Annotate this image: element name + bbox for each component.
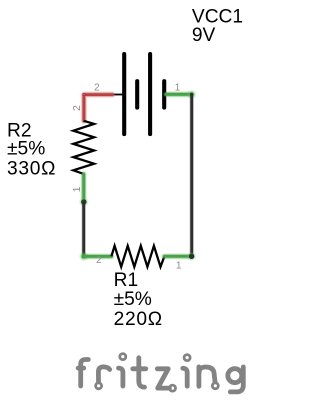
resistor R2 zigzag	[73, 121, 94, 174]
node junction dot left	[79, 197, 88, 206]
wire green R2-pin1 segment	[81, 174, 87, 201]
wire black right vertical	[189, 94, 194, 256]
logo letter n	[196, 367, 201, 386]
wire green R1-pin1 segment	[164, 253, 191, 259]
resistor R1 zigzag	[111, 246, 164, 267]
logo letter r	[96, 383, 102, 389]
red wire bendpoint dot	[82, 93, 85, 96]
node green bend bottom-left glow	[79, 252, 88, 261]
logo letter t	[139, 358, 145, 387]
node green bend top-right glow	[187, 90, 196, 99]
svg-text:2: 2	[96, 255, 102, 266]
battery VCC1 plate long inner-right	[148, 54, 152, 134]
svg-text:9V: 9V	[192, 25, 216, 46]
battery VCC1 plate short inner-left	[135, 81, 139, 107]
svg-text:220Ω: 220Ω	[114, 309, 163, 330]
svg-text:1: 1	[72, 186, 83, 192]
wire green VCC1-pin1 segment	[166, 91, 192, 97]
logo letter i second	[184, 355, 190, 361]
battery VCC1 pin 2 lead	[112, 94, 124, 96]
logo letter g	[228, 369, 242, 383]
wire black left vertical	[81, 202, 86, 256]
battery VCC1 pin 1 lead	[164, 93, 190, 95]
logo letter f	[81, 360, 89, 387]
battery VCC1 plate long pin2-side	[122, 54, 126, 134]
svg-text:2: 2	[72, 105, 83, 111]
svg-text:2: 2	[94, 83, 100, 94]
svg-text:1: 1	[176, 261, 182, 272]
svg-text:±5%: ±5%	[114, 289, 152, 310]
logo letter i first	[120, 354, 126, 360]
node junction dot bottom-right	[187, 252, 196, 261]
battery VCC1 plate short pin1-side	[162, 81, 166, 107]
wire red VCC1-pin2 to R2-pin2	[84, 95, 113, 121]
fritzing logo	[78, 354, 243, 392]
wire green R1-pin2 segment	[84, 253, 112, 259]
svg-text:1: 1	[175, 83, 181, 94]
svg-text:330Ω: 330Ω	[7, 159, 56, 180]
svg-text:±5%: ±5%	[7, 139, 45, 160]
logo letter z	[157, 369, 169, 388]
